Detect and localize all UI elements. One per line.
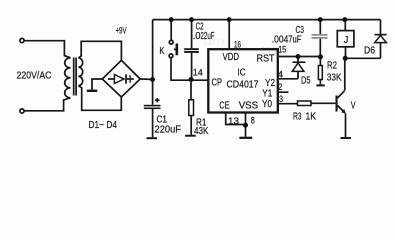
- svg-text:D1~ D4: D1~ D4: [89, 119, 118, 131]
- svg-text:K: K: [159, 45, 164, 57]
- svg-text:R2: R2: [327, 60, 337, 72]
- svg-text:16: 16: [234, 40, 241, 51]
- svg-text:D6: D6: [364, 45, 375, 57]
- svg-text:2: 2: [278, 82, 283, 93]
- svg-text:CP: CP: [212, 77, 223, 89]
- svg-text:22uF: 22uF: [201, 30, 215, 42]
- svg-text:CD4017: CD4017: [227, 79, 259, 91]
- svg-text:14: 14: [193, 68, 203, 79]
- svg-text:D5: D5: [301, 75, 311, 87]
- svg-text:4: 4: [278, 69, 284, 80]
- svg-text:1K: 1K: [306, 111, 317, 123]
- svg-text:CE: CE: [219, 99, 230, 111]
- svg-text:220V/AC: 220V/AC: [17, 70, 52, 82]
- svg-text:7uF: 7uF: [288, 34, 301, 46]
- svg-text:220uF: 220uF: [155, 124, 182, 136]
- svg-text:3: 3: [279, 94, 283, 105]
- svg-text:+9V: +9V: [116, 26, 127, 37]
- svg-text:Y0: Y0: [262, 98, 272, 110]
- svg-text:43K: 43K: [194, 125, 209, 137]
- svg-text:33K: 33K: [327, 72, 342, 84]
- svg-text:15: 15: [278, 45, 286, 56]
- svg-text:13: 13: [228, 116, 239, 127]
- svg-text:VDD: VDD: [223, 51, 240, 63]
- svg-text:IC: IC: [238, 67, 246, 79]
- svg-text:R3: R3: [293, 111, 302, 123]
- svg-text:J: J: [344, 34, 349, 46]
- svg-text:.004: .004: [272, 34, 289, 46]
- svg-text:VSS: VSS: [239, 99, 259, 111]
- svg-text:8: 8: [251, 116, 255, 127]
- svg-text:RST: RST: [257, 52, 276, 64]
- svg-text:V: V: [351, 99, 356, 111]
